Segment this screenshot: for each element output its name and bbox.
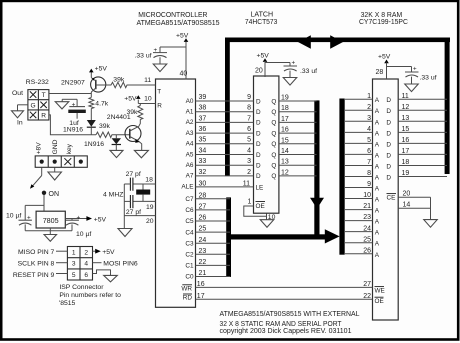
svg-text:38: 38 [199,105,207,112]
svg-text:D: D [256,141,261,148]
svg-text:D: D [386,108,391,115]
svg-text:A4: A4 [186,141,194,148]
svg-text:6: 6 [247,126,251,133]
svg-text:In: In [17,119,23,126]
svg-text:A: A [375,208,380,215]
svg-text:3: 3 [367,115,371,122]
svg-text:37: 37 [199,115,207,122]
svg-text:Out: Out [12,90,23,97]
svg-text:G: G [31,102,36,109]
svg-text:A: A [375,163,380,170]
svg-text:34: 34 [199,147,207,154]
svg-text:22: 22 [199,259,207,266]
svg-text:+: + [292,60,296,67]
svg-text:.33 uf: .33 uf [134,52,151,59]
svg-text:1: 1 [72,250,76,257]
svg-text:C3: C3 [185,240,194,247]
svg-text:+5V: +5V [95,65,108,72]
svg-text:27 pf: 27 pf [126,171,141,178]
svg-text:D: D [256,152,261,159]
svg-text:32: 32 [199,169,207,176]
svg-text:A: A [375,219,380,226]
svg-text:LE: LE [256,184,264,191]
svg-text:A: A [375,197,380,204]
svg-text:A5: A5 [186,151,194,158]
svg-text:D: D [386,141,391,148]
svg-text:2N2907: 2N2907 [61,79,85,86]
svg-text:39: 39 [199,94,207,101]
svg-text:WE: WE [375,287,385,294]
svg-text:14: 14 [403,201,411,208]
svg-text:+8V: +8V [35,142,42,155]
svg-text:20: 20 [403,190,411,197]
svg-text:A7: A7 [186,173,194,180]
svg-text:D: D [386,174,391,181]
svg-text:+5V: +5V [257,52,270,59]
svg-text:ON: ON [49,191,60,198]
svg-text:A: A [375,152,380,159]
svg-text:5: 5 [247,137,251,144]
svg-text:+5V: +5V [94,216,107,223]
svg-text:MISO PIN 7: MISO PIN 7 [18,249,54,256]
svg-text:+5V: +5V [102,249,115,256]
svg-text:35: 35 [199,137,207,144]
svg-text:9: 9 [367,181,371,188]
svg-text:A: A [375,130,380,137]
svg-text:18: 18 [402,159,410,166]
svg-text:+5V: +5V [378,53,391,60]
svg-text:10: 10 [363,192,371,199]
svg-text:+5V: +5V [176,33,189,40]
svg-text:74HCT573: 74HCT573 [245,17,278,26]
svg-text:D: D [256,120,261,127]
svg-text:D: D [256,109,261,116]
svg-text:RS-232: RS-232 [26,79,49,86]
svg-text:19: 19 [146,204,154,211]
svg-text:D: D [256,130,261,137]
svg-text:15: 15 [402,126,410,133]
svg-text:ISP Connector: ISP Connector [59,284,104,291]
svg-text:A: A [375,141,380,148]
svg-text:+: + [413,66,417,73]
svg-text:CY7C199-15PC: CY7C199-15PC [359,17,408,26]
svg-text:1: 1 [367,93,371,100]
svg-text:13: 13 [402,115,410,122]
svg-text:13: 13 [281,159,289,166]
svg-text:C7: C7 [185,196,194,203]
svg-text:17: 17 [197,293,205,300]
svg-text:'8515: '8515 [59,300,76,307]
svg-text:R: R [41,113,46,120]
svg-text:24: 24 [363,225,371,232]
svg-text:16: 16 [281,127,289,134]
svg-text:D: D [386,130,391,137]
svg-text:2: 2 [247,169,251,176]
svg-text:+5V: +5V [124,95,137,102]
svg-text:19: 19 [281,95,289,102]
svg-text:+: + [77,214,81,221]
svg-text:11: 11 [144,77,151,84]
svg-text:11: 11 [402,93,409,100]
svg-text:8: 8 [367,170,371,177]
svg-text:39k: 39k [99,123,111,130]
svg-text:18: 18 [281,105,289,112]
svg-text:Q: Q [271,152,276,159]
svg-text:A: A [375,119,380,126]
svg-text:GND: GND [52,139,59,154]
svg-text:39k: 39k [113,76,125,83]
svg-text:C1: C1 [185,263,194,270]
svg-text:4: 4 [247,147,251,154]
svg-text:15: 15 [281,137,289,144]
svg-text:5: 5 [367,137,371,144]
svg-text:5: 5 [72,272,76,279]
svg-text:R: R [157,103,162,110]
svg-text:39k: 39k [127,109,139,116]
svg-text:Q: Q [271,120,276,127]
svg-text:D: D [386,152,391,159]
svg-text:+: + [72,101,76,108]
svg-text:ATMEGA8515/AT90S8515 WITH EXTE: ATMEGA8515/AT90S8515 WITH EXTERNAL [220,309,360,318]
svg-text:D: D [256,173,261,180]
svg-text:2: 2 [84,250,88,257]
svg-text:10 µf: 10 µf [76,231,91,238]
svg-text:A: A [375,174,380,181]
svg-text:Q: Q [271,141,276,148]
svg-text:key: key [66,143,73,154]
svg-text:10: 10 [144,95,152,102]
svg-text:C2: C2 [185,252,194,259]
svg-text:Q: Q [271,130,276,137]
svg-text:D: D [256,98,261,105]
svg-text:9: 9 [247,94,251,101]
svg-text:26: 26 [363,247,371,254]
svg-text:WR: WR [181,285,192,292]
svg-text:C0: C0 [185,274,194,281]
svg-text:16: 16 [402,137,410,144]
svg-text:A: A [375,108,380,115]
svg-text:+: + [27,215,31,222]
svg-text:A: A [375,230,380,237]
svg-text:3: 3 [72,261,76,268]
svg-text:MOSI PIN6: MOSI PIN6 [103,260,138,267]
svg-text:30: 30 [199,180,207,187]
svg-text:Q: Q [271,109,276,116]
svg-text:28: 28 [376,69,384,76]
svg-text:8: 8 [247,105,251,112]
svg-text:36: 36 [199,126,207,133]
svg-text:40: 40 [180,71,188,78]
svg-text:25: 25 [363,236,371,243]
svg-text:28: 28 [199,192,207,199]
svg-text:D: D [386,119,391,126]
svg-text:4.7k: 4.7k [95,101,108,108]
svg-text:RD: RD [183,295,193,302]
svg-text:1: 1 [248,199,252,206]
svg-text:10 µf: 10 µf [6,212,21,219]
svg-text:CE: CE [387,195,396,202]
svg-text:20: 20 [146,218,154,225]
svg-text:17: 17 [402,148,410,155]
svg-text:4: 4 [84,261,88,268]
svg-text:Q: Q [271,98,276,105]
svg-text:7: 7 [247,115,251,122]
svg-text:ALE: ALE [181,184,193,191]
svg-text:12: 12 [281,169,289,176]
svg-text:10: 10 [268,214,276,221]
svg-text:21: 21 [199,270,207,277]
svg-text:T: T [42,92,46,99]
svg-text:7805: 7805 [43,216,59,225]
svg-text:SCLK PIN 8: SCLK PIN 8 [18,260,55,267]
svg-text:21: 21 [363,203,371,210]
svg-text:27: 27 [363,281,371,288]
svg-text:RESET PIN 9: RESET PIN 9 [13,272,55,279]
svg-text:.33 uf: .33 uf [300,68,317,75]
svg-text:22: 22 [363,293,371,300]
svg-text:1N916: 1N916 [84,141,104,148]
svg-text:A: A [375,252,380,259]
svg-text:A6: A6 [186,162,194,169]
svg-text:23: 23 [199,248,207,255]
svg-text:17: 17 [281,116,289,123]
svg-text:6: 6 [367,148,371,155]
svg-text:20: 20 [255,68,263,75]
svg-text:A0: A0 [186,98,194,105]
svg-text:D: D [256,163,261,170]
svg-text:Pin numbers refer to: Pin numbers refer to [59,292,121,299]
svg-text:OE: OE [256,203,265,210]
svg-text:+: + [154,47,158,54]
svg-text:27 pf: 27 pf [126,209,141,216]
svg-text:19: 19 [402,170,410,177]
svg-text:27: 27 [199,204,207,211]
svg-text:1N916: 1N916 [63,126,83,133]
svg-text:11: 11 [243,180,250,187]
svg-text:24: 24 [199,237,207,244]
svg-text:OE: OE [375,298,384,305]
svg-text:C6: C6 [185,207,194,214]
svg-text:18: 18 [145,176,153,183]
svg-text:6: 6 [84,272,88,279]
svg-text:.33 uf: .33 uf [420,75,437,82]
svg-text:A3: A3 [186,130,194,137]
svg-text:3: 3 [247,158,251,165]
svg-text:16: 16 [197,281,205,288]
svg-text:copyright 2003 Dick Cappels R: copyright 2003 Dick Cappels REV. 031101 [220,326,352,335]
svg-text:D: D [386,163,391,170]
svg-text:C5: C5 [185,218,194,225]
svg-text:25: 25 [199,226,207,233]
svg-text:A: A [375,97,380,104]
svg-text:A: A [375,241,380,248]
svg-text:26: 26 [199,215,207,222]
svg-text:14: 14 [281,148,289,155]
svg-text:A2: A2 [186,119,194,126]
svg-text:A1: A1 [186,109,194,116]
svg-text:7: 7 [367,159,371,166]
svg-text:33: 33 [199,158,207,165]
svg-text:ATMEGA8515/AT90S8515: ATMEGA8515/AT90S8515 [137,18,220,27]
svg-text:2: 2 [367,104,371,111]
svg-text:Q: Q [271,163,276,170]
svg-text:12: 12 [402,104,410,111]
svg-text:A: A [375,186,380,193]
svg-text:D: D [386,97,391,104]
svg-text:23: 23 [363,214,371,221]
svg-text:4 MHZ: 4 MHZ [103,191,123,198]
svg-text:Q: Q [271,173,276,180]
svg-text:C4: C4 [185,229,194,236]
svg-text:T: T [157,89,161,96]
svg-text:4: 4 [367,126,371,133]
